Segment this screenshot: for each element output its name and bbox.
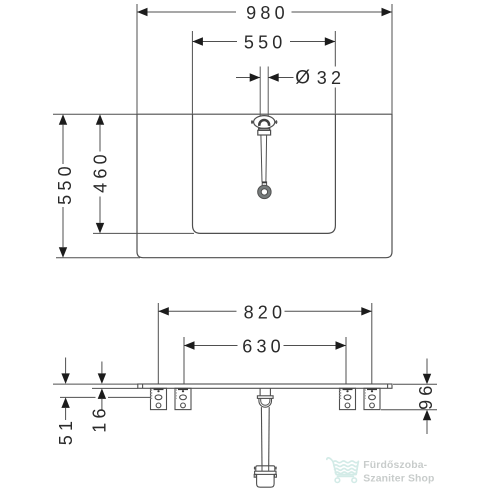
fitting box [258,130,271,135]
console outline (top view) [137,114,392,258]
arrowheads 820 [158,307,169,315]
omega arc inside eye [259,120,269,126]
dim 980 extension lines [136,4,138,114]
svg-text:96: 96 [416,381,436,409]
right ext slab top [393,383,437,385]
svg-text:Szaniter Shop: Szaniter Shop [363,473,434,484]
bracket 3 [340,388,356,409]
waste drain and siphon below slab [254,388,276,487]
fitting band [259,129,270,131]
left ext bracket hole level [60,396,96,398]
dim 96 lines [426,359,428,374]
mounting brackets [151,388,381,409]
dim Ø32 leader lines [236,77,260,79]
siphon nut [256,466,275,471]
arrowheads 96 [423,374,431,385]
dim 51 lines [65,358,67,374]
dim 550 top line [192,41,237,43]
cart handle [327,458,333,462]
bracket 2 [175,388,191,409]
dim 820 line [158,310,236,312]
svg-text:51: 51 [56,417,76,445]
drain pipe plan lines / Ø32 hole extension lines [260,67,268,116]
svg-text:32: 32 [317,68,345,88]
dim 460 line [99,125,101,152]
bracket 1 [151,388,167,409]
drain mouth outer [259,398,272,407]
dim 550 left line [62,125,64,164]
tail pipe [260,407,263,466]
dim 630 line [184,345,238,347]
svg-text:630: 630 [242,336,285,356]
drain fitting eye shape (top view) [252,116,276,199]
svg-text:Ø: Ø [295,68,310,89]
cart basket sides and bottom [333,461,358,474]
svg-text:980: 980 [246,3,289,23]
arrowheads Ø32 [250,73,261,81]
siphon cup [257,474,275,487]
svg-text:550: 550 [55,162,75,205]
arrowheads 980 [137,8,148,16]
chain ring [259,187,269,197]
svg-text:820: 820 [244,303,287,323]
pull rod [261,135,262,182]
pipe inside nut [261,466,263,471]
arrowheads 550 top [192,37,203,45]
arrowheads 16 [98,373,106,384]
dim 820 extension lines [157,303,159,384]
dim 980 line [137,11,236,13]
left extension line top [53,113,137,115]
drain stub [259,388,261,396]
basket wavy lines [333,461,358,463]
right ext bracket bottom [381,409,437,411]
rod connector [262,182,266,186]
left extension line console bottom [56,257,140,259]
cart wheels [335,478,340,483]
arrowheads 51 [61,373,69,384]
arrowheads 460 [96,114,104,125]
svg-text:550: 550 [244,32,287,52]
left ext slab top [53,383,138,385]
dim 630 extension lines [183,337,185,384]
svg-text:16: 16 [90,404,110,432]
dim 16 lines [101,362,103,374]
left ext slab bottom [92,387,138,389]
siphon band with side tabs [255,471,276,474]
left extension line bowl bottom [93,232,194,234]
basin bowl cutout (top view) [193,114,336,233]
svg-text:Fürdőszoba-: Fürdőszoba- [363,460,427,471]
drain mouth inner [261,398,270,405]
svg-text:460: 460 [91,150,111,193]
dim 550 top extension lines [191,31,193,114]
console slab side view [138,384,392,388]
drain flange [257,396,273,399]
arrowheads 630 [184,341,195,349]
arrowheads 550 left [59,114,67,125]
bracket 4 [364,388,380,409]
